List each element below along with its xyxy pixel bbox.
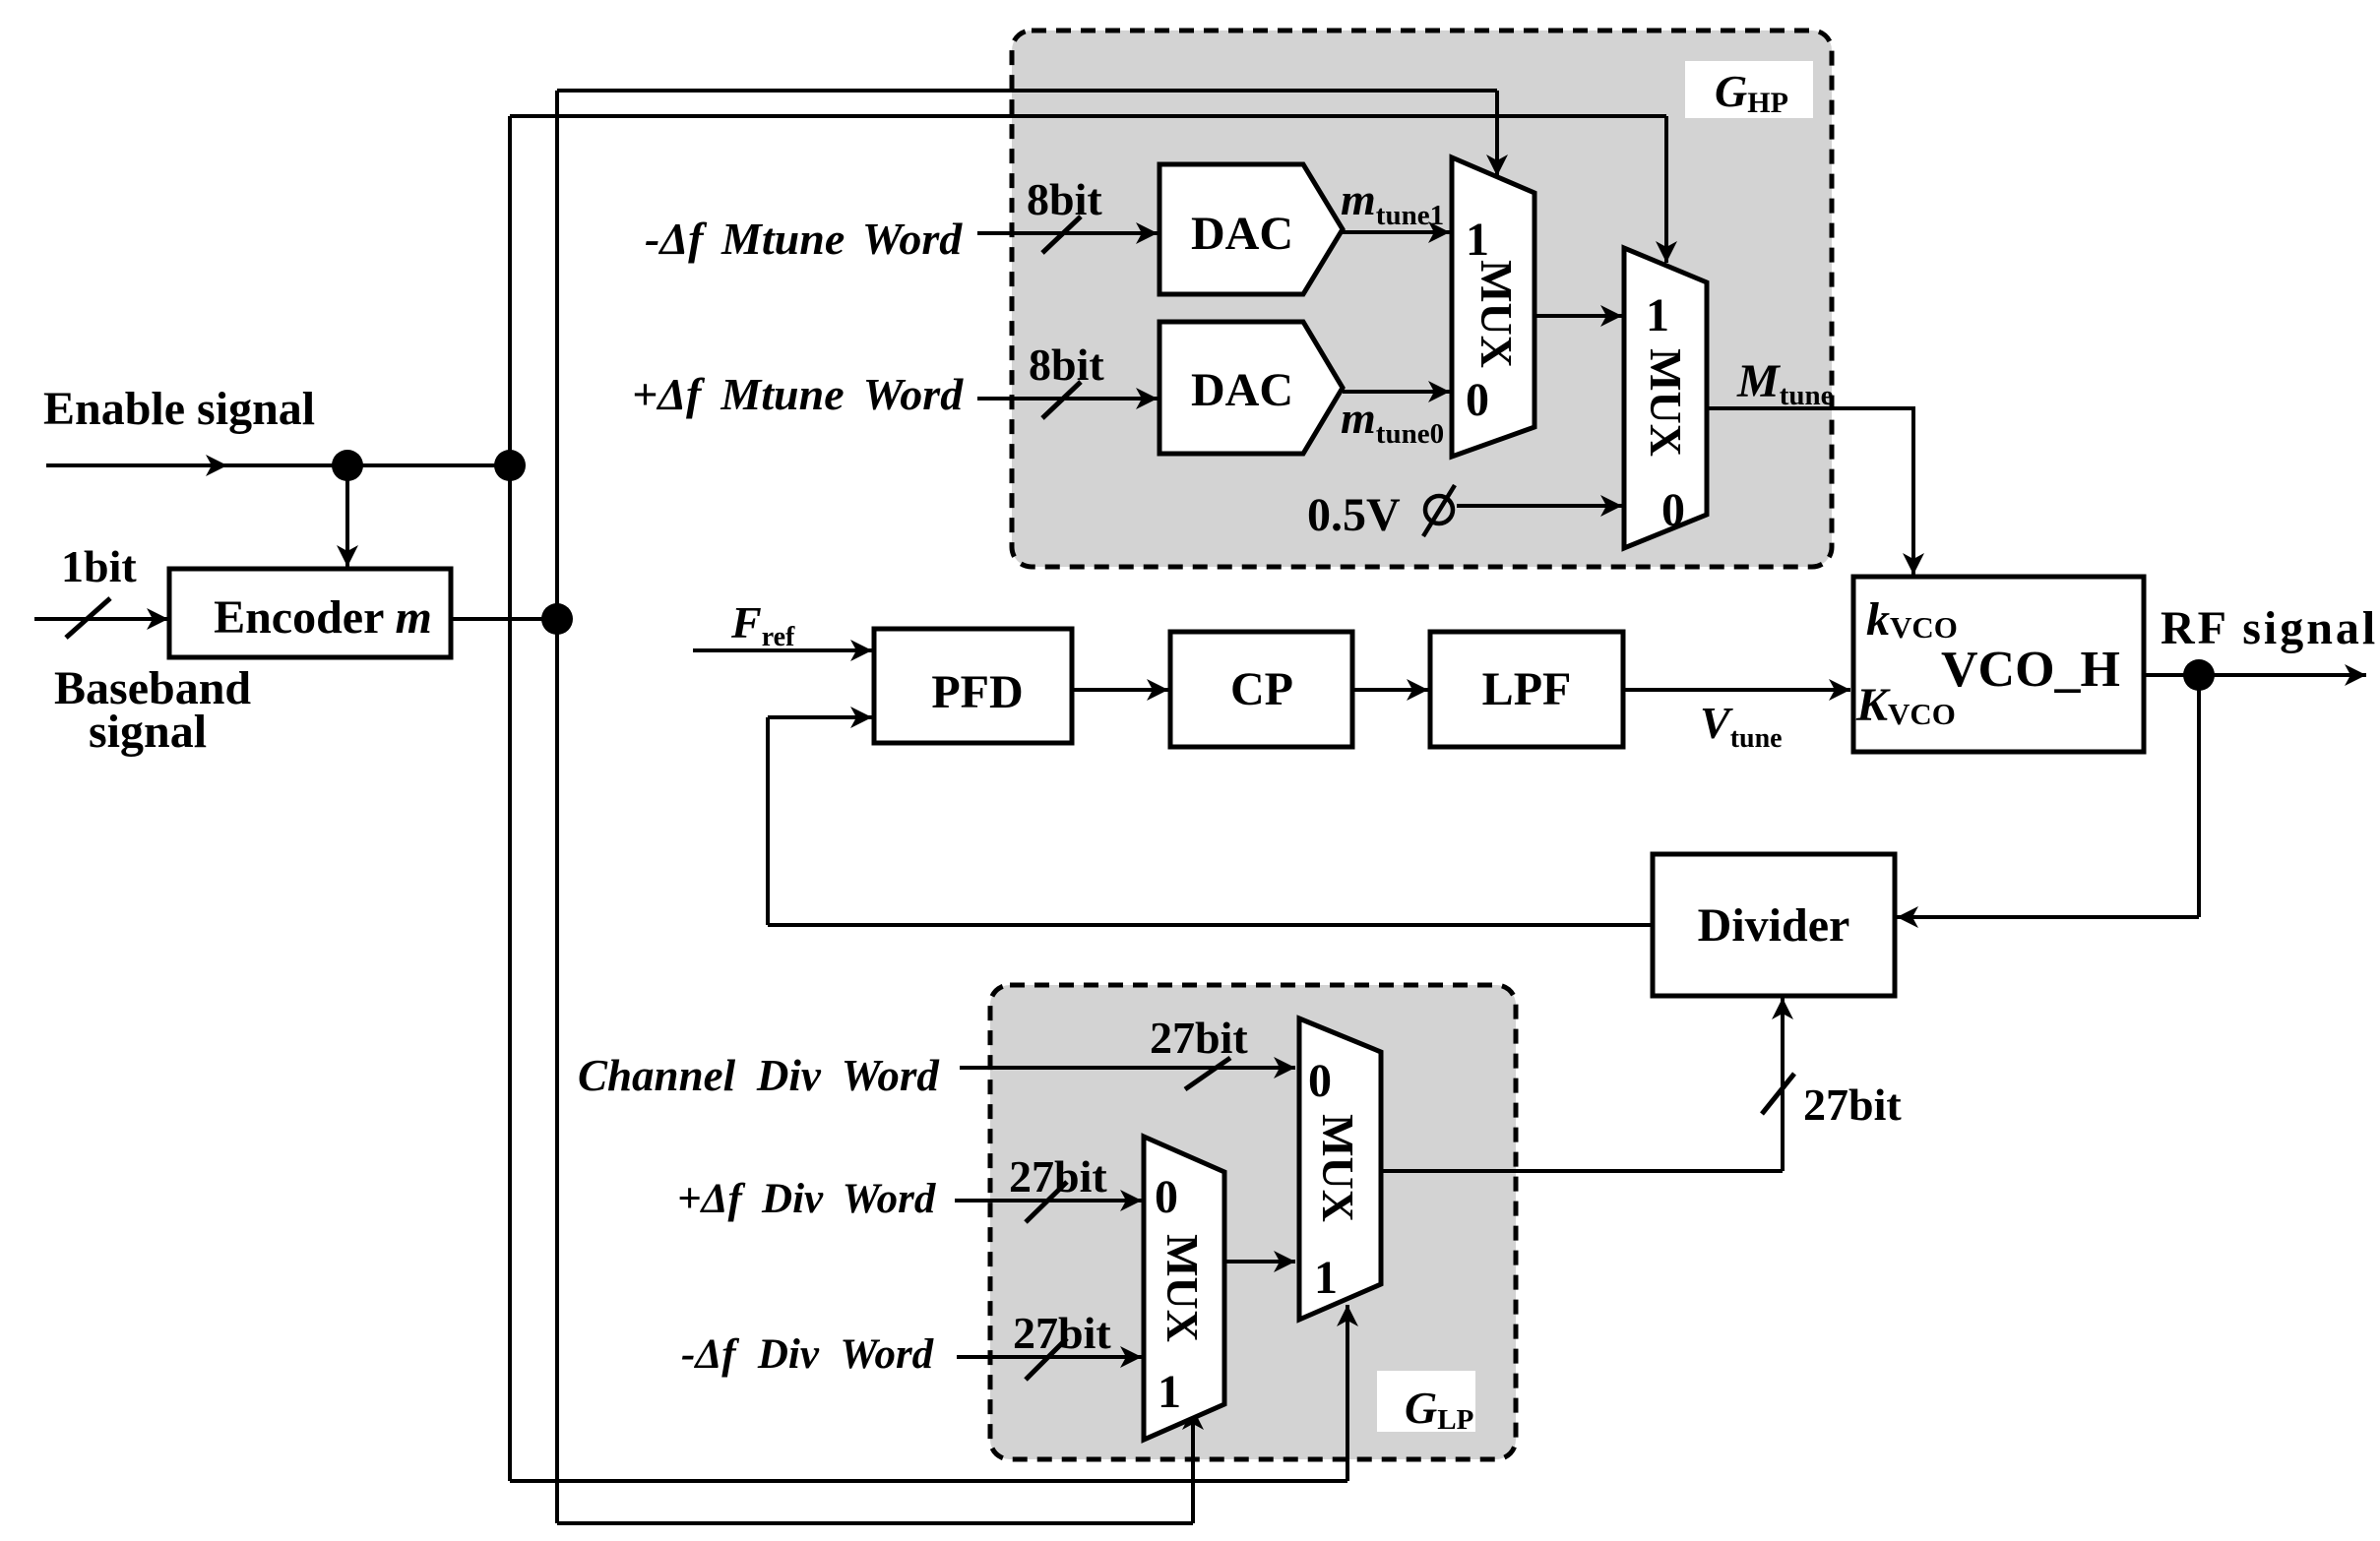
svg-text:1: 1 <box>1314 1252 1338 1304</box>
block DAC2 (pentagon) <box>1159 322 1343 454</box>
svg-text:-Δf Div Word: -Δf Div Word <box>681 1331 935 1378</box>
svg-text:LPF: LPF <box>1482 663 1572 715</box>
svg-text:Divider: Divider <box>1698 899 1850 952</box>
mux MUX2 (G_HP second) <box>1624 248 1707 548</box>
svg-text:0: 0 <box>1661 484 1685 536</box>
group box G_LP (dashed grey region) <box>990 985 1516 1459</box>
wire: Channel Div Word to MUX4 input 0 <box>960 1066 1295 1070</box>
wire: MUX3 output to MUX4 input 1 <box>1225 1260 1295 1264</box>
svg-text:RF signal: RF signal <box>2161 602 2378 654</box>
wire: 27bit riser into Divider <box>1781 998 1785 1171</box>
wire: PFD to CP <box>1072 688 1168 692</box>
slash: 8bit lower <box>1042 382 1081 418</box>
wire: DAC1 output m_tune1 to MUX1 input 1 <box>1343 230 1450 234</box>
svg-text:1: 1 <box>1158 1366 1181 1418</box>
wire: MUX1 select drop <box>1495 91 1499 176</box>
svg-text:Encoder m: Encoder m <box>214 591 432 644</box>
wire: bottom run from bus1 to MUX4 select <box>510 1479 1347 1483</box>
wire: +deltaf Div Word to MUX3 input 0 <box>955 1199 1142 1202</box>
slash: 27bit minus <box>1026 1338 1067 1380</box>
svg-text:VCO_H: VCO_H <box>1941 642 2120 698</box>
wire: feedback into PFD <box>768 715 872 719</box>
svg-text:MUX: MUX <box>1313 1114 1363 1222</box>
svg-text:0.5V: 0.5V <box>1307 489 1401 541</box>
svg-text:0: 0 <box>1466 374 1489 426</box>
mux MUX1 (G_HP first) <box>1452 157 1534 457</box>
slash: 8bit upper <box>1042 216 1081 253</box>
wire: 0.5V to MUX2 input 0 <box>1457 504 1622 508</box>
svg-text:8bit: 8bit <box>1029 339 1104 390</box>
wire: MUX2 output M_tune <box>1708 406 1913 410</box>
svg-text:+Δf Div Word: +Δf Div Word <box>677 1176 937 1222</box>
svg-text:Channel Div Word: Channel Div Word <box>578 1051 940 1100</box>
wire: M_tune drop into VCO <box>1911 406 1915 575</box>
slash: 1bit <box>66 598 110 638</box>
wire: +deltaf Mtune Word to DAC2 <box>977 397 1158 401</box>
junction: enable onto bus1 <box>494 450 526 481</box>
block VCO_H <box>1853 577 2144 752</box>
svg-text:27bit: 27bit <box>1009 1151 1107 1202</box>
slash: 27bit divider <box>1762 1074 1794 1114</box>
wire: -deltaf Div Word to MUX3 input 1 <box>957 1355 1142 1359</box>
svg-text:27bit: 27bit <box>1150 1013 1248 1063</box>
wire: Divider output left <box>768 923 1653 927</box>
label G_HP <box>1685 61 1813 118</box>
slash: 27bit channel <box>1185 1058 1230 1089</box>
svg-text:+Δf Mtune Word: +Δf Mtune Word <box>632 369 964 419</box>
wire: RF feedback into Divider <box>1897 915 2199 919</box>
svg-text:signal: signal <box>89 706 207 758</box>
wire: bottom run from bus2 to MUX3 select <box>557 1521 1193 1525</box>
wire: MUX1 output to MUX2 input 1 <box>1535 314 1622 318</box>
svg-text:0: 0 <box>1308 1055 1332 1107</box>
svg-text:0: 0 <box>1155 1171 1178 1223</box>
svg-text:1bit: 1bit <box>61 541 137 591</box>
svg-text:Enable signal: Enable signal <box>43 383 315 435</box>
wire: DAC2 output m_tune0 to MUX1 input 0 <box>1343 390 1450 394</box>
wire: F_ref into PFD <box>693 648 872 652</box>
svg-text:PFD: PFD <box>931 666 1023 718</box>
svg-text:CP: CP <box>1230 663 1293 715</box>
wire: MUX3 select riser <box>1191 1408 1195 1523</box>
wire: top run from bus2 to MUX1 select <box>557 89 1497 92</box>
svg-text:MUX: MUX <box>1472 260 1522 368</box>
wire: -deltaf Mtune Word to DAC1 <box>977 231 1158 235</box>
svg-text:27bit: 27bit <box>1803 1079 1902 1130</box>
symbol phi (0.5V source) <box>1423 485 1455 536</box>
svg-text:-Δf Mtune Word: -Δf Mtune Word <box>645 214 963 264</box>
svg-text:DAC: DAC <box>1191 208 1293 260</box>
block DAC1 (pentagon) <box>1159 164 1343 294</box>
svg-text:DAC: DAC <box>1191 364 1293 416</box>
svg-text:27bit: 27bit <box>1013 1308 1111 1358</box>
wire: bus1 vertical (enable) <box>508 116 512 1481</box>
wire: top run from bus1 to MUX2 select <box>510 114 1666 118</box>
mux MUX3 (G_LP first) <box>1144 1137 1224 1440</box>
svg-text:MUX: MUX <box>1641 348 1691 457</box>
wire: bus2 vertical (encoder m) <box>555 91 559 1523</box>
block Encoder <box>169 569 451 657</box>
wire: CP to LPF <box>1352 688 1428 692</box>
junction: enable split to encoder <box>332 450 363 481</box>
block Divider <box>1653 854 1895 996</box>
label G_LP <box>1377 1371 1475 1432</box>
wire: Encoder output to bus2 <box>451 617 557 621</box>
wire: 1bit baseband input to Encoder <box>34 617 168 621</box>
wire: MUX4 output <box>1381 1169 1783 1173</box>
block CP <box>1170 632 1352 747</box>
svg-text:MUX: MUX <box>1158 1234 1208 1342</box>
wire: VCO RF output <box>2141 673 2366 677</box>
junction: RF output split <box>2183 659 2215 691</box>
block PFD <box>874 629 1072 743</box>
svg-text:1: 1 <box>1466 214 1489 266</box>
wire: LPF to VCO (V_tune) <box>1623 688 1850 692</box>
wire: RF feedback drop <box>2197 675 2201 917</box>
svg-text:1: 1 <box>1646 289 1669 341</box>
slash: 27bit plus <box>1026 1182 1067 1222</box>
wire: MUX4 select riser <box>1346 1305 1349 1481</box>
group box G_HP (dashed grey region) <box>1012 31 1832 567</box>
wire: Enable signal input <box>46 463 227 467</box>
wire: MUX2 select drop <box>1664 116 1668 263</box>
svg-text:8bit: 8bit <box>1027 174 1102 224</box>
block LPF <box>1430 632 1623 747</box>
wire: enable drop to Encoder <box>345 465 349 567</box>
junction: encoder m onto bus2 <box>541 603 573 635</box>
mux MUX4 (G_LP second) <box>1299 1018 1381 1320</box>
wire: feedback riser <box>766 717 770 925</box>
